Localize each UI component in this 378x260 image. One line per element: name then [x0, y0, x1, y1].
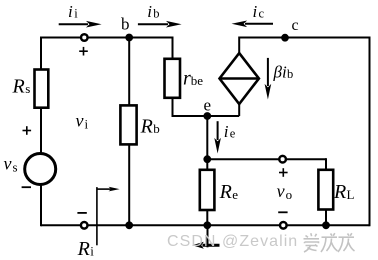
terminal input top	[81, 34, 88, 41]
svg-text:c: c	[259, 7, 265, 21]
wire top-right horizontal	[239, 37, 369, 39]
wire left vertical	[40, 37, 42, 227]
svg-text:e: e	[230, 127, 236, 141]
svg-text:e: e	[204, 96, 212, 115]
wire e down vertical	[206, 116, 208, 159]
svg-text:R: R	[140, 116, 153, 138]
svg-text:c: c	[292, 17, 299, 34]
wire top-left horizontal	[41, 37, 173, 39]
arrow i_b	[138, 21, 182, 28]
svg-text:R: R	[333, 181, 346, 203]
svg-text:i: i	[90, 243, 94, 258]
arrow i_i	[59, 21, 102, 28]
svg-text:βi: βi	[273, 63, 287, 82]
svg-text:i: i	[147, 2, 152, 21]
minus sign vi	[77, 212, 86, 214]
node b junction dot	[125, 34, 133, 42]
svg-text:R: R	[219, 181, 232, 203]
wire e horizontal	[172, 115, 240, 117]
resistor RL	[318, 170, 333, 210]
svg-text:s: s	[25, 81, 30, 96]
junction dot vo top	[203, 155, 211, 163]
plus sign vi	[79, 47, 88, 56]
svg-text:b: b	[153, 121, 160, 136]
svg-text:v: v	[76, 111, 84, 131]
plus sign vo	[279, 168, 288, 177]
svg-text:R: R	[77, 238, 90, 260]
svg-text:b: b	[153, 7, 159, 21]
wire Re branch vertical	[206, 159, 208, 225]
terminal output bottom	[280, 222, 287, 229]
wire diamond branch vertical	[238, 37, 240, 117]
svg-text:o: o	[286, 187, 293, 202]
dependent source diamond	[220, 53, 259, 104]
node e junction dot	[203, 112, 211, 120]
junction dot Re bottom	[203, 221, 211, 229]
Ro indicator arrow	[192, 242, 219, 249]
wire RL branch vertical	[325, 158, 327, 225]
junction dot RL bottom	[322, 221, 330, 229]
wire Rb branch vertical	[128, 38, 130, 226]
minus sign vs	[22, 186, 31, 188]
svg-text:i: i	[68, 2, 73, 21]
terminal input bottom	[81, 222, 88, 229]
Ro indicator line	[207, 225, 209, 247]
svg-text:be: be	[191, 73, 204, 88]
svg-text:R: R	[12, 76, 25, 98]
svg-text:i: i	[85, 117, 89, 132]
wire vo top horizontal	[207, 158, 326, 160]
arrow i_e	[214, 121, 221, 153]
Ri indicator line	[96, 187, 98, 245]
watermark CJK glyph hui (U+7070) #1	[321, 233, 338, 252]
svg-text:CSDN @Zevalin: CSDN @Zevalin	[167, 233, 298, 250]
terminal output top	[279, 156, 286, 163]
svg-text:e: e	[232, 187, 238, 202]
svg-text:s: s	[13, 159, 18, 174]
arrow beta i_b	[265, 58, 272, 100]
watermark CJK glyph ai (U+7231)	[304, 233, 320, 252]
svg-text:b: b	[121, 14, 130, 33]
junction dot Rb bottom	[125, 221, 133, 229]
svg-text:i: i	[74, 7, 78, 21]
node c junction dot	[281, 34, 289, 42]
svg-text:i: i	[253, 2, 258, 21]
svg-text:i: i	[224, 122, 229, 141]
Ri indicator arrow	[97, 187, 120, 192]
svg-text:b: b	[287, 67, 293, 81]
svg-text:v: v	[4, 154, 12, 174]
resistor rbe	[165, 59, 181, 98]
resistor Re	[200, 170, 215, 210]
svg-text:L: L	[347, 187, 355, 202]
resistor Rb	[120, 105, 136, 144]
wire bottom horizontal	[41, 224, 370, 226]
resistor Rs	[35, 70, 49, 108]
svg-text:v: v	[277, 181, 285, 201]
arrow i_c	[232, 21, 274, 28]
watermark CJK glyph hui (U+7070) #2	[338, 233, 355, 252]
wire rbe branch vertical	[172, 37, 174, 117]
plus sign vs	[23, 126, 32, 135]
svg-text:r: r	[183, 67, 191, 89]
wire right vertical	[369, 37, 371, 227]
minus sign vo	[278, 211, 287, 213]
source vs	[25, 154, 56, 185]
